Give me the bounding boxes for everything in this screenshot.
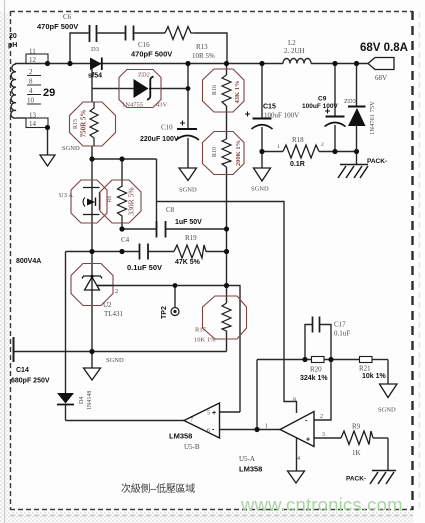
svg-text:R18: R18 — [292, 136, 304, 144]
svg-text:1: 1 — [265, 424, 268, 430]
svg-text:C17: C17 — [334, 321, 346, 329]
svg-text:SGND: SGND — [179, 187, 197, 194]
svg-text:470pF 500V: 470pF 500V — [37, 22, 78, 31]
svg-text:+: + — [212, 410, 216, 417]
svg-text:324k 1%: 324k 1% — [300, 375, 328, 382]
svg-text:C14: C14 — [16, 367, 29, 374]
svg-text:ZD3: ZD3 — [344, 98, 356, 105]
svg-text:C6: C6 — [63, 13, 72, 21]
svg-text:1K: 1K — [352, 449, 361, 457]
svg-text:SGND: SGND — [378, 407, 396, 414]
svg-text:6: 6 — [207, 428, 210, 434]
svg-text:R17: R17 — [195, 327, 207, 334]
svg-text:R6: R6 — [107, 196, 113, 203]
svg-text:R15: R15 — [73, 119, 79, 129]
svg-text:TL431: TL431 — [104, 310, 124, 318]
svg-text:-: - — [305, 418, 308, 425]
svg-text:LM358: LM358 — [169, 432, 192, 441]
svg-text:1N4148: 1N4148 — [87, 391, 93, 410]
svg-text:C9: C9 — [318, 96, 327, 103]
svg-text:8: 8 — [293, 398, 296, 404]
svg-text:C10: C10 — [161, 124, 173, 132]
svg-text:100uF 100V: 100uF 100V — [264, 112, 299, 120]
svg-text:sf54: sf54 — [88, 73, 102, 80]
svg-text:11: 11 — [29, 48, 36, 56]
svg-text:7: 7 — [190, 418, 193, 424]
svg-text:200K 1%: 200K 1% — [235, 140, 242, 166]
svg-text:1N4761 75V: 1N4761 75V — [369, 101, 376, 135]
svg-text:3: 3 — [322, 432, 325, 438]
svg-text:800V4A: 800V4A — [16, 258, 41, 265]
svg-text:PACK-: PACK- — [346, 476, 366, 483]
svg-text:SGND: SGND — [62, 145, 80, 152]
svg-text:次級側--低壓區域: 次級側--低壓區域 — [121, 482, 195, 495]
svg-text:SGND: SGND — [106, 357, 124, 364]
svg-text:10K 1%: 10K 1% — [194, 337, 216, 344]
svg-text:0.1uF: 0.1uF — [334, 330, 350, 338]
svg-text:470pF 500V: 470pF 500V — [131, 50, 172, 59]
svg-text:U5-B: U5-B — [184, 443, 200, 451]
svg-text:2: 2 — [320, 414, 323, 420]
svg-text:PACK-: PACK- — [367, 158, 387, 165]
svg-text:U2: U2 — [103, 301, 112, 309]
svg-text:8: 8 — [29, 78, 33, 86]
svg-text:-: - — [212, 427, 215, 434]
svg-text:1: 1 — [277, 144, 280, 150]
svg-text:+: + — [306, 437, 310, 444]
svg-text:www.cntronics.com: www.cntronics.com — [240, 494, 403, 515]
svg-text:4: 4 — [297, 456, 300, 462]
svg-text:R20: R20 — [310, 366, 322, 374]
svg-text:SGND: SGND — [251, 186, 269, 193]
svg-text:2: 2 — [115, 288, 118, 295]
svg-text:13: 13 — [29, 112, 37, 120]
svg-text:1N4755: 1N4755 — [122, 102, 143, 109]
svg-text:2: 2 — [29, 68, 33, 76]
svg-text:U3 A: U3 A — [59, 192, 73, 199]
svg-text:0.1uF 50V: 0.1uF 50V — [127, 263, 162, 272]
svg-text:R10: R10 — [212, 147, 218, 157]
svg-text:4: 4 — [29, 87, 33, 95]
svg-text:R13: R13 — [196, 43, 208, 51]
svg-text:TP2: TP2 — [161, 306, 168, 319]
svg-text:LM358: LM358 — [239, 465, 262, 474]
svg-text:5: 5 — [207, 411, 210, 417]
svg-text:10: 10 — [27, 97, 35, 105]
svg-text:12: 12 — [29, 56, 37, 64]
svg-text:29: 29 — [43, 87, 55, 99]
svg-text:43V: 43V — [156, 102, 168, 109]
svg-text:100uF 100V: 100uF 100V — [302, 103, 338, 110]
svg-text:C16: C16 — [138, 41, 150, 49]
svg-text:R21: R21 — [359, 365, 371, 373]
svg-text:68V 0.8A: 68V 0.8A — [360, 42, 408, 54]
svg-text:D4: D4 — [79, 397, 85, 404]
svg-text:U5-A: U5-A — [239, 455, 255, 463]
svg-text:ZD2: ZD2 — [138, 72, 150, 79]
svg-text:R9: R9 — [352, 423, 361, 431]
svg-text:43K 1%: 43K 1% — [234, 81, 241, 104]
svg-text:680pF 250V: 680pF 250V — [11, 378, 50, 385]
svg-text:pH: pH — [8, 42, 17, 49]
svg-text:14: 14 — [29, 120, 37, 128]
svg-text:20: 20 — [9, 33, 17, 40]
svg-text:330R 5%: 330R 5% — [127, 187, 136, 215]
svg-text:220uF 100V: 220uF 100V — [140, 136, 179, 143]
svg-text:2: 2 — [321, 142, 324, 148]
svg-text:C15: C15 — [263, 104, 276, 111]
svg-text:10k 1%: 10k 1% — [362, 373, 387, 380]
svg-text:68V: 68V — [375, 74, 387, 82]
svg-text:L2: L2 — [288, 39, 296, 47]
svg-text:1uF 50V: 1uF 50V — [175, 219, 202, 226]
svg-text:R16: R16 — [212, 85, 218, 95]
svg-text:0.1R: 0.1R — [290, 161, 305, 168]
svg-text:750R 5%: 750R 5% — [80, 110, 88, 138]
svg-text:10R 5%: 10R 5% — [192, 52, 215, 60]
svg-text:C8: C8 — [166, 206, 175, 214]
svg-text:47K 5%: 47K 5% — [175, 259, 201, 266]
svg-text:D3: D3 — [91, 46, 99, 53]
svg-text:2. 2UH: 2. 2UH — [284, 47, 305, 55]
svg-text:R19: R19 — [185, 234, 197, 242]
svg-text:C4: C4 — [121, 236, 130, 244]
